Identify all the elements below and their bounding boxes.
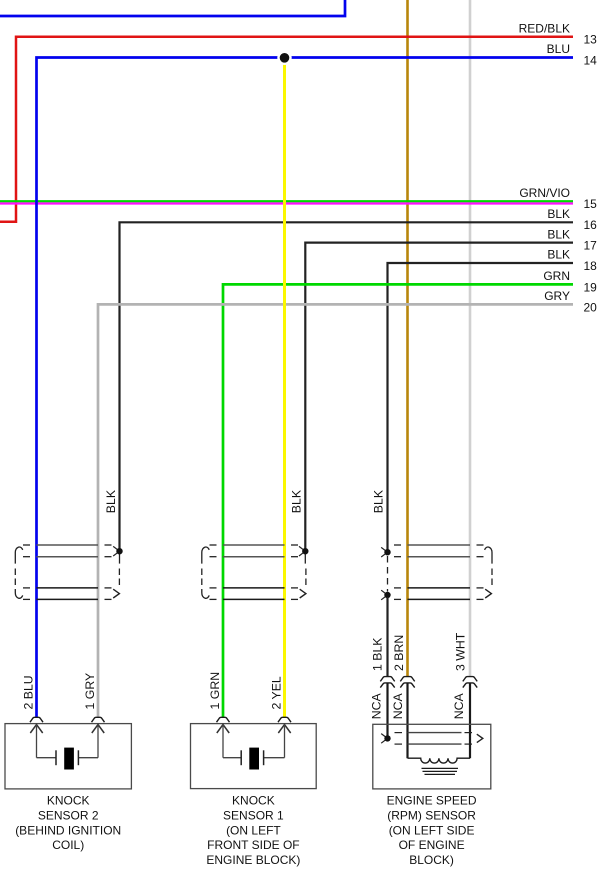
- svg-text:13: 13: [584, 33, 598, 47]
- shield capsule C3 bottom band: [408, 587, 471, 589]
- inline terminal pair NCA x=470: [463, 677, 477, 682]
- sensor box KNOCK SENSOR 2: [5, 724, 131, 789]
- shield capsule C1 dashes: [15, 545, 119, 599]
- wire pin2 into sensor: [406, 683, 408, 758]
- wire GRN 19: [223, 284, 573, 717]
- pickup coil: [408, 758, 471, 763]
- wire GRY 20: [98, 304, 573, 717]
- inline terminal pair NCA x=387.5: [380, 677, 394, 682]
- svg-text:COIL): COIL): [52, 838, 84, 852]
- svg-text:NCA: NCA: [370, 693, 384, 720]
- wire GRN/VIO 15: [0, 200, 573, 202]
- wire pin1 into sensor: [386, 683, 388, 735]
- svg-text:19: 19: [584, 280, 598, 294]
- svg-text:16: 16: [584, 218, 598, 232]
- wire YEL: [283, 58, 286, 718]
- sensor box KNOCK SENSOR 1: [191, 724, 317, 789]
- svg-text:ENGINE BLOCK): ENGINE BLOCK): [206, 853, 300, 867]
- wire WHT: [469, 0, 472, 677]
- internal shield dot: [381, 734, 387, 739]
- piezo element KNOCK SENSOR 1: [223, 757, 241, 759]
- svg-text:BLK: BLK: [547, 248, 570, 262]
- shield drain junction dot C1: [113, 546, 119, 551]
- inline terminal pair NCA x=407.5: [400, 677, 414, 682]
- internal shield capsule C4: [408, 732, 462, 734]
- svg-text:KNOCK: KNOCK: [47, 794, 90, 808]
- coil core: [422, 767, 459, 769]
- svg-text:14: 14: [584, 53, 598, 67]
- svg-text:GRN: GRN: [543, 269, 570, 283]
- svg-text:NCA: NCA: [452, 693, 466, 720]
- svg-text:(ON LEFT: (ON LEFT: [226, 823, 281, 837]
- svg-text:GRY: GRY: [544, 289, 570, 303]
- shield capsule C2 top band: [223, 544, 285, 546]
- shield capsule C2 bottom band: [223, 587, 285, 589]
- junction dot BLU/YEL: [277, 51, 291, 65]
- shield capsule C3 right end crook: [485, 547, 492, 564]
- svg-text:18: 18: [584, 259, 598, 273]
- svg-text:NCA: NCA: [391, 693, 405, 720]
- svg-text:BLU: BLU: [547, 42, 570, 56]
- svg-text:(BEHIND IGNITION: (BEHIND IGNITION: [15, 823, 121, 837]
- svg-text:2 BRN: 2 BRN: [392, 635, 406, 671]
- shield capsule C1 top band: [37, 544, 99, 546]
- shield continuation arrow C3: [485, 589, 491, 598]
- wire BLK 16: [120, 222, 574, 549]
- svg-text:OF ENGINE: OF ENGINE: [399, 838, 465, 852]
- shield capsule C1 bottom band: [37, 587, 99, 589]
- internal shield arrow: [477, 734, 483, 742]
- internal arrows KNOCK SENSOR 1: [217, 725, 229, 734]
- shield continuation arrow C1: [113, 589, 119, 598]
- svg-text:BLK: BLK: [547, 227, 570, 241]
- svg-text:BLK: BLK: [547, 207, 570, 221]
- svg-text:RED/BLK: RED/BLK: [519, 21, 570, 35]
- svg-text:1 GRN: 1 GRN: [208, 672, 222, 710]
- connector hats KNOCK SENSOR 1: [217, 717, 230, 722]
- svg-text:SENSOR 1: SENSOR 1: [223, 808, 284, 822]
- svg-text:2 YEL: 2 YEL: [269, 676, 283, 709]
- svg-text:20: 20: [584, 300, 598, 314]
- wire BLU 14: [37, 58, 574, 718]
- piezo element KNOCK SENSOR 2: [37, 757, 57, 759]
- wire BLK 18: [388, 263, 574, 550]
- wire BRN: [406, 0, 409, 677]
- wire pin3 into sensor: [469, 683, 471, 758]
- svg-text:ENGINE SPEED: ENGINE SPEED: [387, 794, 477, 808]
- shield drain junction dot C2: [299, 546, 305, 551]
- shield capsule C2 dashes: [202, 545, 306, 599]
- shield capsule C2 left end crooks: [202, 547, 209, 564]
- svg-text:1 BLK: 1 BLK: [370, 637, 384, 671]
- sensor box ENGINE SPEED: [373, 724, 491, 789]
- shield capsule C1 left end crooks: [15, 547, 22, 564]
- shield capsule C3 top band: [408, 544, 471, 546]
- svg-text:1 GRY: 1 GRY: [83, 673, 97, 710]
- svg-text:SENSOR 2: SENSOR 2: [38, 808, 99, 822]
- shield drain dots C3: [381, 547, 387, 552]
- shield continuation arrow C2: [300, 589, 306, 598]
- shield capsule C3 dashes: [394, 545, 492, 599]
- svg-text:(ON LEFT SIDE: (ON LEFT SIDE: [389, 823, 475, 837]
- svg-text:BLOCK): BLOCK): [409, 853, 454, 867]
- svg-text:17: 17: [584, 239, 598, 253]
- svg-text:15: 15: [584, 197, 598, 211]
- wire RED/BLK 13: [0, 37, 573, 222]
- svg-text:(RPM) SENSOR: (RPM) SENSOR: [387, 808, 476, 822]
- wire BLK pin1 below shield: [386, 597, 388, 677]
- wire BLK 17: [305, 243, 573, 549]
- connector hats KNOCK SENSOR 2: [30, 717, 43, 722]
- svg-text:GRN/VIO: GRN/VIO: [519, 186, 570, 200]
- svg-text:2 BLU: 2 BLU: [21, 675, 35, 709]
- svg-text:FRONT SIDE OF: FRONT SIDE OF: [207, 838, 299, 852]
- svg-text:BLK: BLK: [290, 489, 304, 513]
- svg-text:BLK: BLK: [372, 489, 386, 513]
- wire BLU stub top-left: [0, 0, 345, 16]
- svg-text:KNOCK: KNOCK: [232, 794, 275, 808]
- svg-text:3 WHT: 3 WHT: [453, 632, 467, 671]
- internal arrows KNOCK SENSOR 2: [30, 725, 42, 734]
- svg-text:BLK: BLK: [104, 489, 118, 513]
